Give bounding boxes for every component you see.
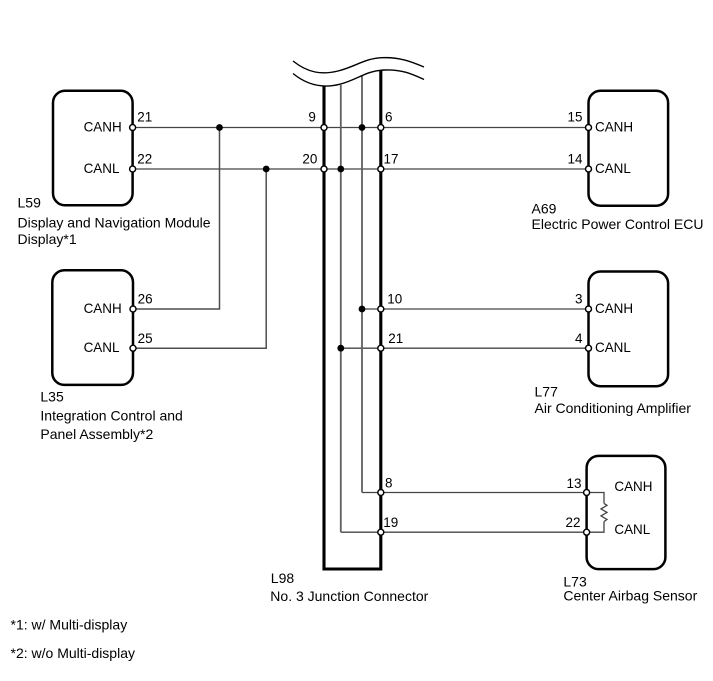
- svg-text:4: 4: [575, 331, 583, 346]
- L35 pin 26 terminal circle: [130, 306, 136, 312]
- svg-text:*1: w/ Multi-display: *1: w/ Multi-display: [11, 617, 128, 633]
- svg-text:15: 15: [568, 110, 583, 125]
- svg-text:CANL: CANL: [614, 522, 650, 537]
- svg-text:CANL: CANL: [84, 161, 120, 176]
- svg-text:L98: L98: [271, 570, 295, 586]
- wire row D (junction pin21 to L77 pin4): [341, 347, 589, 349]
- junction connector L98 outline: [324, 70, 381, 569]
- junction pin 19 terminal circle: [378, 529, 384, 535]
- svg-text:21: 21: [388, 331, 403, 346]
- connector box L73: [587, 456, 666, 569]
- L77 pin 3 terminal circle: [586, 306, 592, 312]
- node dot CANH bus at row A: [359, 124, 366, 131]
- svg-text:CANH: CANH: [84, 119, 122, 134]
- connector box L77: [589, 272, 669, 387]
- svg-text:CANH: CANH: [595, 119, 633, 134]
- svg-text:L77: L77: [535, 383, 559, 399]
- connector box A69: [589, 91, 669, 206]
- L73 pin 22 terminal circle: [584, 529, 590, 535]
- svg-text:26: 26: [138, 292, 153, 307]
- junction pin 17 terminal circle: [378, 166, 384, 172]
- svg-text:Display and Navigation Module: Display and Navigation Module: [18, 215, 211, 231]
- junction pin 21 terminal circle: [378, 345, 384, 351]
- svg-text:CANL: CANL: [595, 161, 631, 176]
- node dot CANL bus at row D: [337, 345, 344, 352]
- svg-text:22: 22: [566, 515, 581, 530]
- node B solder dot (branch to L35 CANL): [263, 166, 270, 173]
- L73 internal terminating resistor loop wire: [587, 493, 604, 504]
- junction pin 6 terminal circle: [378, 125, 384, 131]
- wire row B CANL (L59 pin22 to A69 pin14): [133, 168, 589, 170]
- junction pin 8 terminal circle: [378, 490, 384, 496]
- junction pin 9 terminal circle: [321, 125, 327, 131]
- A69 pin 14 terminal circle: [586, 166, 592, 172]
- svg-text:21: 21: [137, 110, 152, 125]
- svg-text:10: 10: [387, 292, 402, 307]
- svg-text:19: 19: [383, 515, 398, 530]
- svg-text:CANH: CANH: [84, 301, 122, 316]
- L77 pin 4 terminal circle: [586, 345, 592, 351]
- L73 pin 13 terminal circle: [584, 490, 590, 496]
- svg-text:CANL: CANL: [84, 340, 120, 355]
- svg-text:6: 6: [385, 110, 392, 125]
- svg-text:25: 25: [138, 331, 153, 346]
- svg-text:8: 8: [385, 475, 392, 490]
- L59 pin 22 terminal circle: [130, 166, 136, 172]
- junction connector L98 internal CANH bus line: [361, 76, 363, 493]
- svg-text:L59: L59: [18, 194, 42, 210]
- svg-text:A69: A69: [532, 200, 557, 216]
- svg-text:L35: L35: [40, 388, 64, 404]
- svg-text:3: 3: [575, 292, 582, 307]
- svg-text:*2: w/o Multi-display: *2: w/o Multi-display: [11, 645, 136, 661]
- L35 pin 25 terminal circle: [130, 345, 136, 351]
- svg-text:20: 20: [302, 152, 317, 167]
- svg-text:Display*1: Display*1: [18, 231, 77, 247]
- svg-text:Electric Power Control ECU: Electric Power Control ECU: [532, 216, 704, 232]
- break symbol wavy line bottom: [293, 70, 424, 86]
- junction pin 20 terminal circle: [321, 166, 327, 172]
- junction pin 10 terminal circle: [378, 306, 384, 312]
- svg-text:CANL: CANL: [595, 340, 631, 355]
- svg-text:22: 22: [137, 152, 152, 167]
- svg-text:14: 14: [568, 152, 583, 167]
- wire row C (junction pin10 to L77 pin3): [362, 308, 589, 310]
- svg-text:17: 17: [384, 152, 399, 167]
- node A solder dot (branch to L35 CANH): [216, 124, 223, 131]
- svg-text:Integration Control and: Integration Control and: [40, 408, 182, 424]
- connector box L59: [53, 91, 133, 206]
- svg-text:Center Airbag Sensor: Center Airbag Sensor: [563, 588, 697, 604]
- wire L35 pin26 to node A branch: [133, 128, 220, 310]
- node dot CANH bus at row C: [359, 306, 366, 313]
- svg-text:No. 3 Junction Connector: No. 3 Junction Connector: [270, 588, 428, 604]
- svg-text:9: 9: [308, 110, 315, 125]
- L73 internal resistor to CANL wire: [587, 522, 604, 533]
- wire row F (junction pin19 to L73 pin22): [341, 531, 587, 533]
- node dot CANL bus at row B: [337, 166, 344, 173]
- junction connector L98 internal CANL bus line: [340, 85, 342, 532]
- svg-text:Panel Assembly*2: Panel Assembly*2: [40, 426, 153, 442]
- A69 pin 15 terminal circle: [586, 125, 592, 131]
- wire row A CANH (L59 pin21 to A69 pin15): [133, 127, 589, 129]
- L59 pin 21 terminal circle: [130, 125, 136, 131]
- svg-text:CANH: CANH: [614, 479, 652, 494]
- wire L35 pin25 to node B branch: [133, 169, 266, 348]
- svg-text:13: 13: [567, 476, 582, 491]
- wire row E (junction pin8 to L73 pin13): [362, 492, 587, 494]
- svg-text:Air Conditioning Amplifier: Air Conditioning Amplifier: [535, 400, 692, 416]
- connector box L35: [52, 270, 133, 385]
- resistor zigzag: [601, 503, 607, 521]
- break symbol wavy line top: [293, 58, 424, 73]
- svg-text:CANH: CANH: [595, 301, 633, 316]
